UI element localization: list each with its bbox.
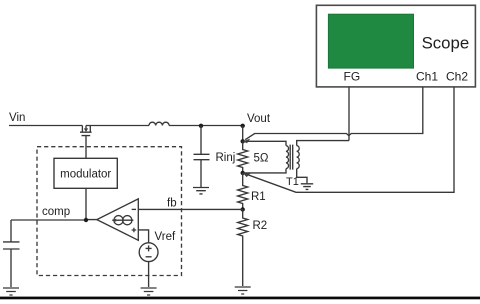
bottom rule bar (0, 297, 480, 300)
capacitor comp C1 (3, 220, 20, 287)
svg-text:FG: FG (344, 70, 361, 84)
wire comp line (11, 219, 97, 221)
capacitor Cout (194, 126, 210, 187)
op-amp gm symbol (114, 216, 123, 225)
wire FG to T1 (348, 87, 350, 141)
wire modulator to comp node (85, 188, 87, 220)
arrowhead Ch1 probe (243, 139, 251, 144)
wire Vout node down (242, 126, 244, 142)
node comp (84, 218, 88, 222)
transistor Q1 (MOSFET switch) (80, 126, 92, 159)
op-amp minus input mark (132, 208, 136, 210)
svg-text:comp: comp (42, 206, 70, 218)
svg-text:Ch1: Ch1 (416, 70, 438, 84)
transformer T1 (243, 141, 349, 184)
wire Vin rail (9, 125, 82, 127)
svg-text:modulator: modulator (60, 169, 111, 181)
resistor R2 (238, 209, 248, 286)
op-amp plus input mark (132, 228, 137, 233)
svg-text:Vout: Vout (247, 113, 271, 125)
scope enclosure (316, 5, 475, 87)
wire plus input to Vref (138, 230, 148, 243)
T1 secondary top lead (297, 141, 349, 146)
wire Ch1 to injection top (245, 87, 423, 140)
svg-text:Ch2: Ch2 (446, 70, 468, 84)
ground Cout (193, 188, 209, 194)
T1 core (290, 145, 293, 170)
ground Vref (141, 288, 157, 295)
dashed converter box (37, 147, 182, 276)
svg-text:Vref: Vref (155, 231, 176, 243)
ground comp cap (3, 288, 19, 295)
ground R2 (235, 287, 251, 294)
svg-text:5Ω: 5Ω (254, 153, 269, 165)
svg-text:fb: fb (167, 198, 177, 210)
node fb divider (241, 207, 245, 211)
T1 secondary bottom lead (297, 169, 307, 184)
wire rail MOSFET to inductor (86, 125, 149, 127)
wire inductor to Vout node (169, 125, 243, 127)
T1 primary bottom lead (243, 169, 286, 173)
arrowhead Ch2 probe (243, 173, 251, 177)
wire Vref to ground (148, 262, 150, 287)
ground T1 (301, 184, 313, 190)
svg-text:R2: R2 (253, 220, 268, 232)
op-amp U1 error amplifier (97, 199, 139, 240)
scope screen (328, 14, 413, 68)
wire Ch2 to injection bottom (245, 87, 454, 192)
wire fb line (138, 208, 242, 210)
resistor Rinj 5ohm (238, 141, 248, 173)
resistor R1 (238, 173, 248, 210)
node output cap junction (199, 124, 203, 128)
source Vref (139, 243, 158, 262)
node injection top (241, 139, 245, 143)
modulator block (54, 158, 117, 188)
svg-text:T1: T1 (286, 176, 299, 188)
T1 primary winding (286, 146, 289, 169)
T1 secondary winding (297, 146, 300, 169)
svg-text:Vin: Vin (9, 112, 25, 124)
svg-text:R1: R1 (251, 191, 266, 203)
svg-text:Rinj: Rinj (216, 152, 236, 164)
svg-text:Scope: Scope (422, 33, 470, 52)
inductor L1 (149, 122, 169, 125)
node injection bottom (241, 171, 245, 175)
node Vout (241, 124, 245, 128)
T1 primary top lead (243, 141, 286, 145)
